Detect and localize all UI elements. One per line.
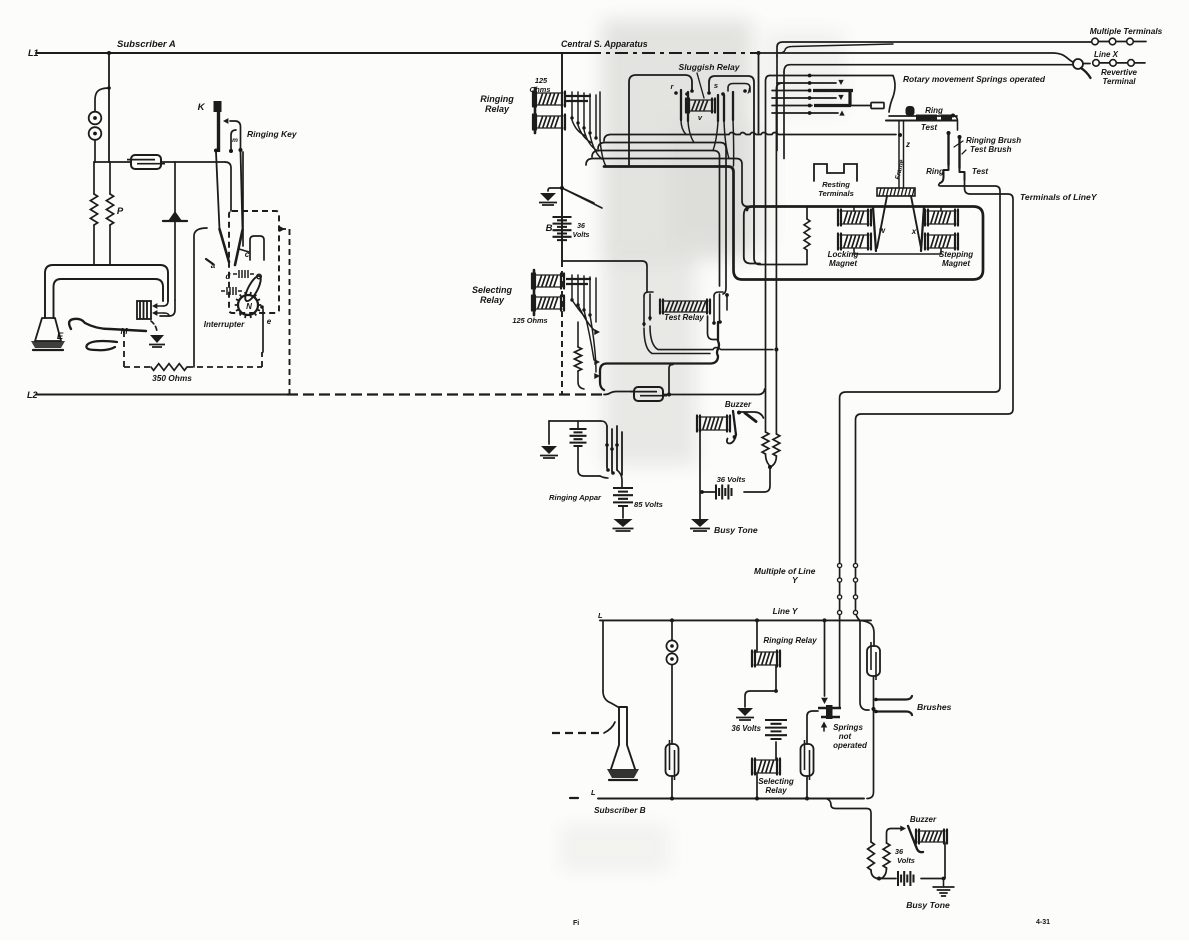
svg-text:Busy Tone: Busy Tone (714, 525, 758, 535)
svg-text:P: P (117, 206, 124, 217)
svg-text:operated: operated (833, 741, 868, 750)
svg-text:K: K (198, 102, 206, 113)
svg-text:85 Volts: 85 Volts (634, 500, 663, 509)
svg-text:Terminals: Terminals (818, 189, 854, 198)
svg-text:Test: Test (921, 123, 937, 132)
svg-text:Terminals of LineY: Terminals of LineY (1020, 192, 1098, 202)
svg-text:36 Volts: 36 Volts (717, 475, 746, 484)
svg-text:Sluggish Relay: Sluggish Relay (679, 62, 741, 72)
svg-text:L: L (598, 611, 603, 620)
svg-text:e: e (267, 317, 272, 326)
svg-text:N: N (246, 302, 252, 311)
svg-text:Multiple Terminals: Multiple Terminals (1090, 26, 1163, 36)
svg-text:Fi: Fi (573, 920, 579, 927)
svg-text:Subscriber B: Subscriber B (594, 805, 646, 815)
svg-text:E: E (57, 331, 64, 342)
svg-text:z: z (905, 140, 910, 149)
svg-text:Multiple of Line: Multiple of Line (754, 566, 816, 576)
svg-text:Brushes: Brushes (917, 702, 952, 712)
svg-text:Line Y: Line Y (773, 606, 799, 616)
svg-text:36: 36 (895, 847, 904, 856)
svg-text:Ring: Ring (925, 106, 943, 115)
svg-text:Test Relay: Test Relay (664, 313, 704, 322)
svg-text:L: L (591, 788, 596, 797)
svg-text:Rotary movement Springs opera: Rotary movement Springs operated (903, 74, 1046, 84)
svg-text:Revertive: Revertive (1101, 68, 1138, 77)
svg-text:x: x (911, 227, 917, 236)
svg-text:350 Ohms: 350 Ohms (152, 373, 192, 383)
svg-text:Interrupter: Interrupter (204, 320, 245, 329)
svg-text:Springs: Springs (833, 723, 863, 732)
svg-text:Ringing Key: Ringing Key (247, 129, 298, 139)
svg-text:Stepping: Stepping (939, 250, 973, 259)
svg-text:not: not (839, 732, 852, 741)
svg-text:36: 36 (577, 223, 585, 230)
svg-text:Line X: Line X (1094, 50, 1119, 59)
svg-text:s: s (714, 81, 718, 90)
svg-text:Buzzer: Buzzer (725, 400, 752, 409)
svg-text:Selecting: Selecting (758, 777, 794, 786)
svg-text:125 Ohms: 125 Ohms (512, 316, 547, 325)
svg-text:Busy Tone: Busy Tone (906, 900, 950, 910)
svg-text:125: 125 (535, 76, 548, 85)
svg-text:Test Brush: Test Brush (970, 145, 1012, 154)
svg-text:Relay: Relay (765, 786, 787, 795)
svg-text:Volts: Volts (897, 856, 915, 865)
svg-text:Ringing: Ringing (480, 94, 514, 104)
svg-text:Volts: Volts (573, 232, 590, 239)
svg-text:Resting: Resting (822, 180, 850, 189)
svg-text:Relay: Relay (480, 295, 505, 305)
svg-text:Magnet: Magnet (829, 259, 857, 268)
svg-text:Ringing Relay: Ringing Relay (763, 636, 817, 645)
svg-text:Relay: Relay (485, 104, 510, 114)
svg-text:Terminal: Terminal (1102, 77, 1136, 86)
svg-text:36 Volts: 36 Volts (731, 724, 761, 733)
svg-text:Subscriber A: Subscriber A (117, 39, 176, 50)
svg-text:Selecting: Selecting (472, 285, 513, 295)
svg-text:4-31: 4-31 (1036, 919, 1050, 926)
svg-text:Ringing Brush: Ringing Brush (966, 136, 1021, 145)
svg-text:B: B (546, 223, 553, 234)
svg-text:m: m (232, 137, 238, 144)
svg-text:Central S. Apparatus: Central S. Apparatus (561, 39, 648, 49)
svg-text:Magnet: Magnet (942, 259, 970, 268)
svg-text:Buzzer: Buzzer (910, 815, 937, 824)
svg-text:Ring: Ring (926, 167, 944, 176)
svg-text:Ringing Appar: Ringing Appar (549, 493, 602, 502)
svg-text:Test: Test (972, 167, 988, 176)
